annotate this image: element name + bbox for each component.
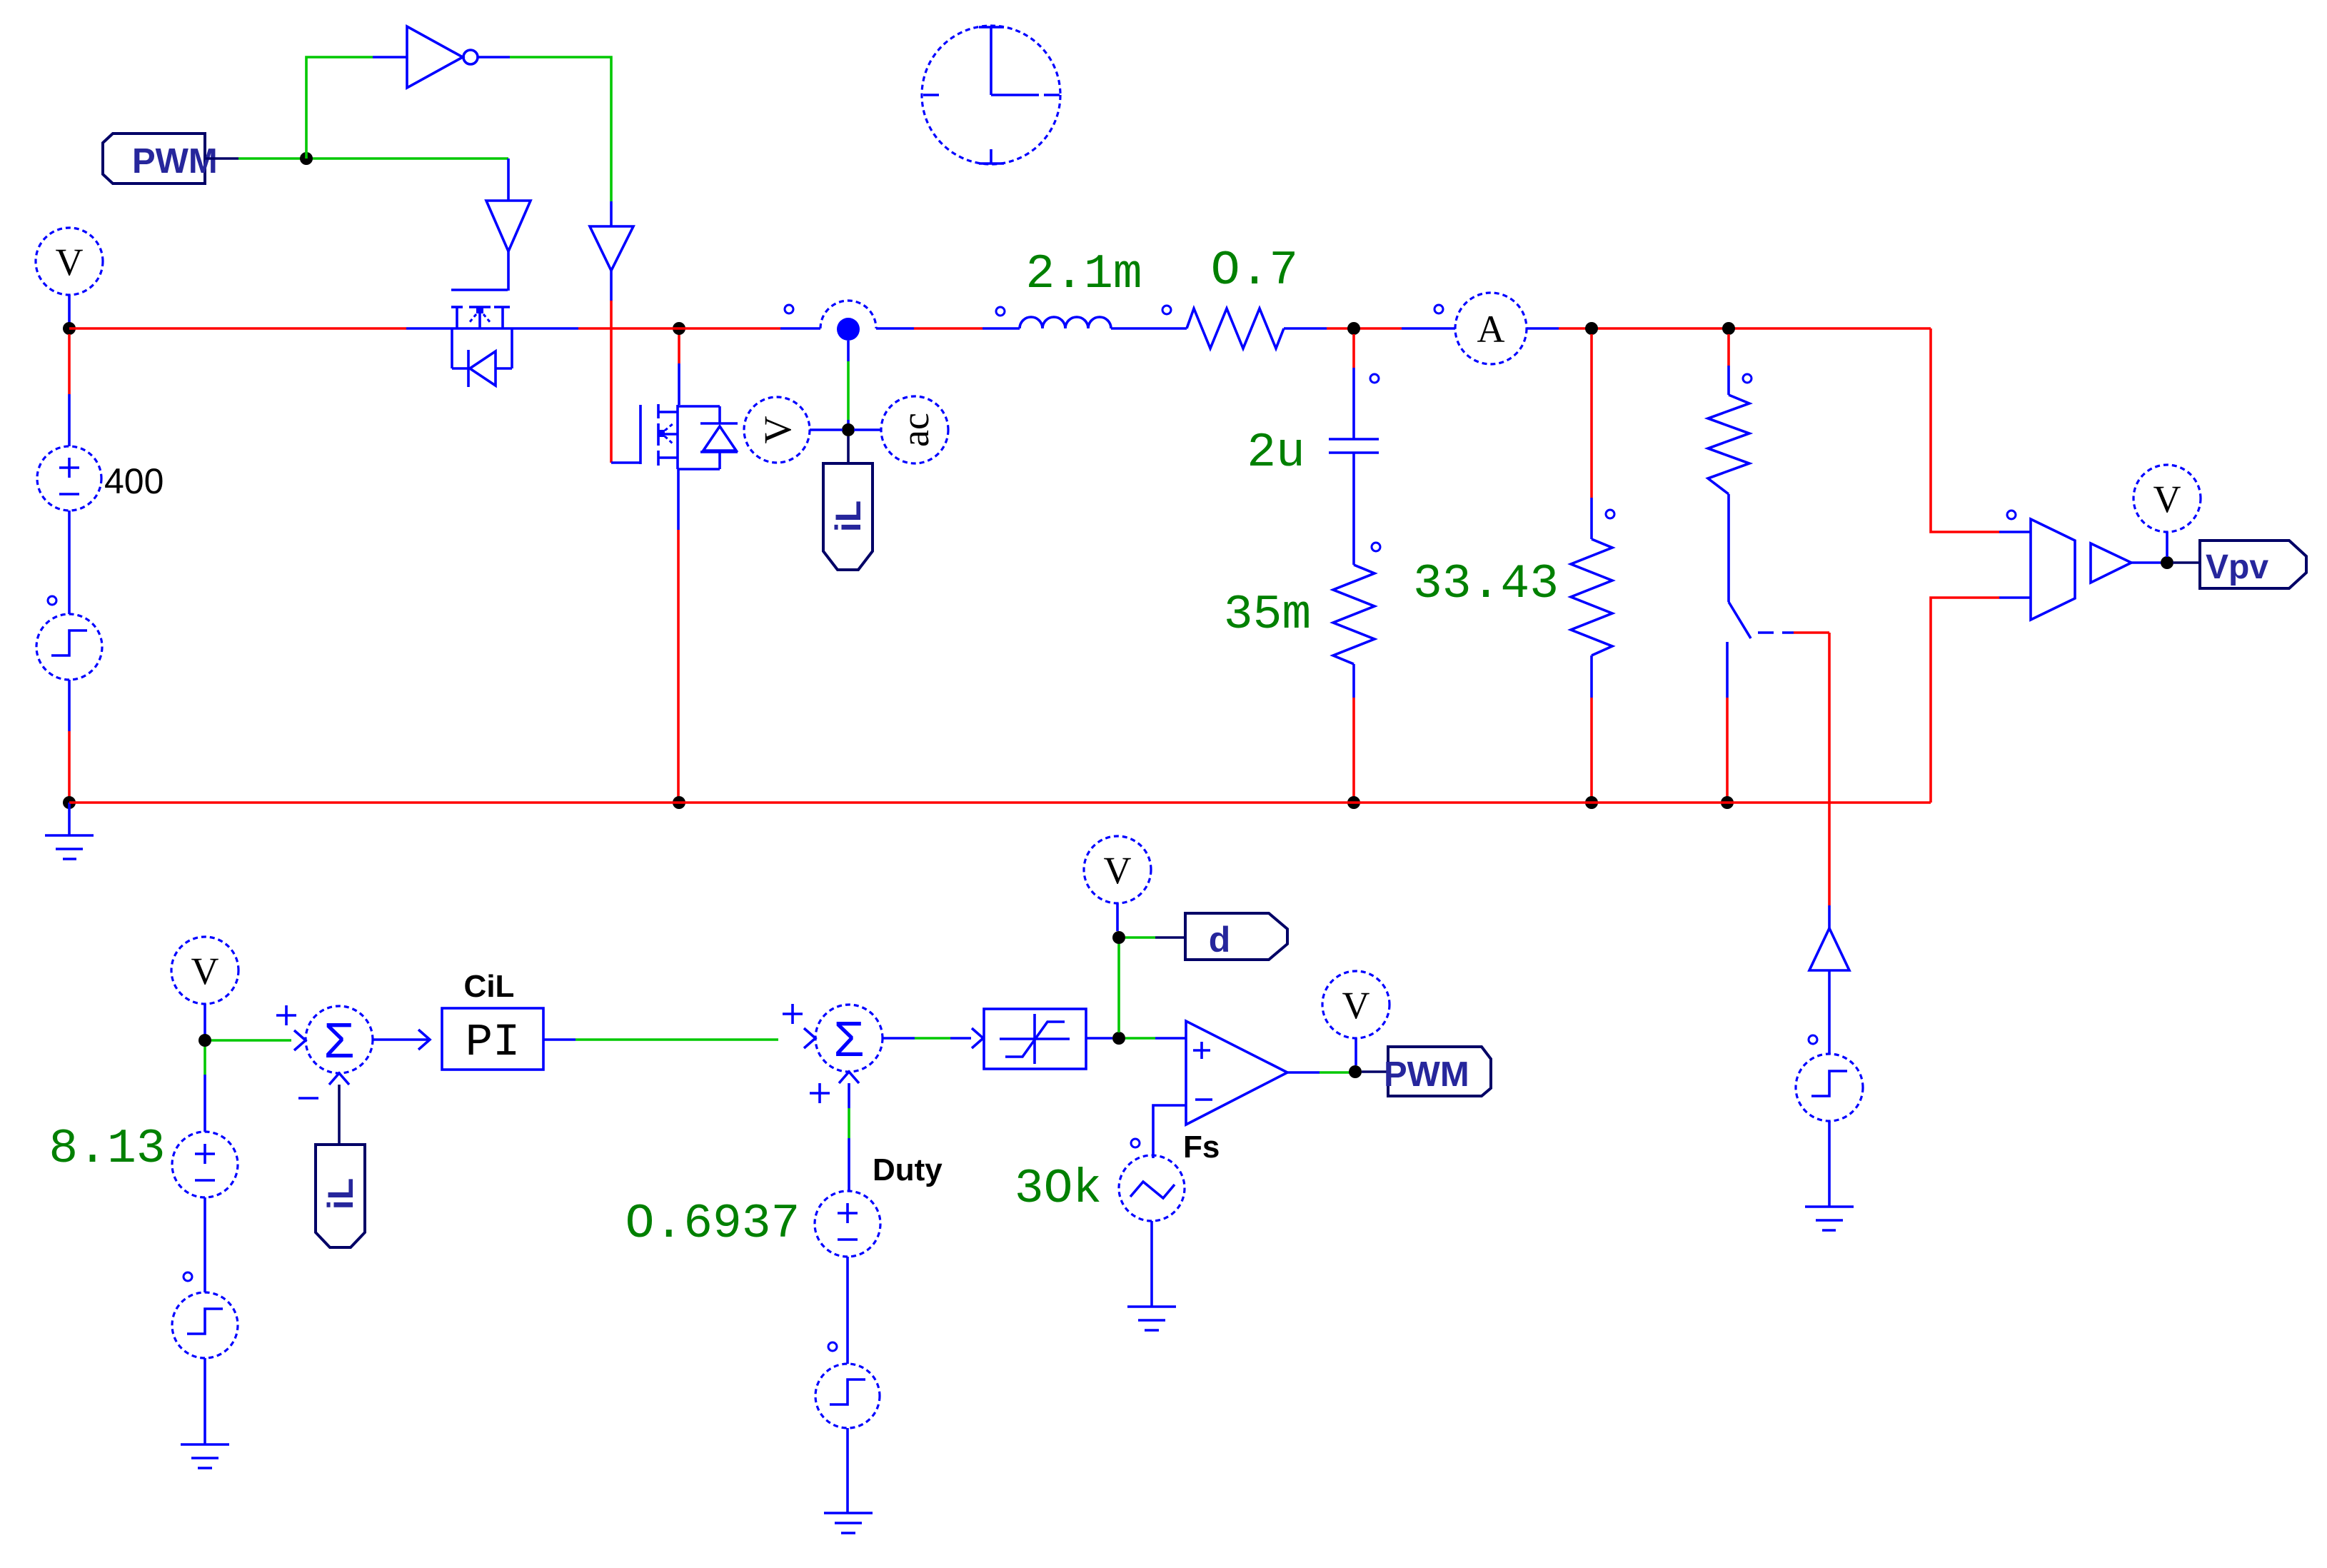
node (bus left) [63, 322, 76, 335]
step source T2 [1796, 970, 1863, 1121]
voltmeter V3 [2133, 465, 2201, 557]
wire (carrier input) [1153, 1105, 1186, 1158]
ground [45, 803, 94, 859]
inductor L1 [914, 307, 1187, 328]
wire [238, 157, 508, 160]
svg-text:PWM: PWM [132, 142, 218, 181]
step source T4 [815, 1257, 880, 1428]
mosfet Q2 (shunt switch) [640, 404, 720, 469]
svg-text:O.6937: O.6937 [625, 1197, 800, 1252]
step source T3 [172, 1197, 238, 1358]
svg-text:PI: PI [466, 1017, 521, 1069]
svg-text:2u: 2u [1247, 426, 1305, 481]
wire [846, 1428, 849, 1513]
wire (bottom bus corner up) [1931, 598, 1999, 803]
wire [1125, 1037, 1186, 1040]
svg-text:Vpv: Vpv [2206, 548, 2268, 586]
svg-text:8.13: 8.13 [49, 1122, 165, 1177]
ground [1805, 1207, 1854, 1230]
svg-text:V: V [1104, 849, 1132, 892]
pi controller CiL [373, 969, 543, 1070]
node [1347, 796, 1360, 809]
svg-text:d: d [1209, 920, 1231, 960]
wire [2131, 561, 2161, 564]
ammeter A1 [1402, 293, 1559, 364]
voltmeter V5 [1084, 836, 1151, 931]
arrow (into summer bottom) [839, 1072, 859, 1083]
signal flow triangle (switch control) [1809, 905, 1849, 970]
diode D2 (body diode of Q2) [700, 406, 738, 469]
wire [1828, 1121, 1831, 1207]
svg-text:ac: ac [894, 413, 937, 447]
label tag PWM (output) [1362, 1047, 1491, 1096]
svg-text:O.7: O.7 [1211, 243, 1298, 298]
svg-text:Fs: Fs [1183, 1130, 1220, 1165]
minus sign [298, 1097, 318, 1100]
resistor R4 (load leg) [1708, 334, 1751, 494]
node [1585, 796, 1598, 809]
plus sign [276, 1005, 296, 1025]
label tag iL (feedback) [316, 1145, 365, 1247]
label tag d [1125, 913, 1287, 960]
dc source 400 [37, 334, 164, 511]
plus sign [810, 1083, 830, 1103]
wire (right bus corner down) [1931, 328, 1999, 532]
inverter (NOT gate) [373, 26, 510, 88]
wire (Q2 source) [677, 469, 680, 798]
wire [1150, 1221, 1153, 1307]
node [1585, 322, 1598, 335]
node [1112, 931, 1125, 944]
voltmeter V6 [1322, 971, 1389, 1065]
gain block [2091, 543, 2131, 583]
voltmeter V4 [171, 937, 238, 1035]
ground [1127, 1307, 1176, 1330]
voltage sensor VSEN1 [1999, 511, 2075, 620]
wire [68, 680, 71, 798]
svg-text:PWM: PWM [1384, 1055, 1469, 1094]
svg-text:V: V [756, 416, 799, 444]
limiter [883, 1009, 1086, 1069]
label tag iL (sensor output) [823, 436, 873, 570]
step source T1 [36, 511, 102, 680]
node [842, 423, 855, 436]
svg-text:CiL: CiL [464, 969, 515, 1004]
wire [1327, 327, 1402, 330]
svg-text:iL: iL [321, 1178, 361, 1210]
wire [1117, 944, 1120, 1032]
svg-text:Σ: Σ [833, 1011, 864, 1067]
node [1347, 322, 1360, 335]
node (bottom bus left) [63, 796, 76, 809]
wire (top bus left) [69, 327, 406, 330]
wire [203, 1358, 206, 1444]
summer SUM1 [306, 1006, 373, 1073]
ground [824, 1513, 873, 1533]
wire (bus segment) [578, 327, 780, 330]
arrow (into summer bottom) [329, 1073, 349, 1085]
switch SW1 [1727, 494, 1794, 798]
resistor R2 [1333, 543, 1380, 798]
node [1349, 1065, 1362, 1078]
dc source 8.13 [172, 1047, 238, 1197]
node (Q2 drain on bus) [673, 322, 685, 335]
svg-text:35m: 35m [1224, 588, 1311, 643]
ac probe [854, 396, 948, 463]
wire [1086, 1037, 1112, 1040]
node [2161, 556, 2173, 569]
wire [211, 1030, 306, 1050]
wire [510, 57, 611, 201]
svg-text:Duty: Duty [873, 1152, 943, 1187]
svg-text:Σ: Σ [323, 1012, 354, 1068]
gate drive block (left) [486, 159, 531, 291]
svg-text:V: V [2153, 478, 2181, 521]
svg-text:V: V [56, 241, 84, 283]
plus sign [783, 1004, 803, 1024]
svg-text:400: 400 [104, 461, 164, 501]
wire (Q2 drain) [678, 334, 680, 405]
wire (gate of Q2) [611, 301, 641, 463]
clock [922, 26, 1060, 164]
svg-text:V: V [191, 950, 219, 992]
svg-text:A: A [1477, 308, 1505, 351]
label tag PWM (gate input) [103, 134, 238, 184]
resistor R3 (33.43) [1571, 334, 1614, 798]
carrier source Fs [1119, 1139, 1185, 1221]
diode D1 (body diode of Q1) [452, 328, 512, 387]
wire (switch to control, crosses bus) [1794, 633, 1829, 905]
svg-text:33.43: 33.43 [1413, 557, 1559, 612]
comparator CMP1 [1186, 1021, 1287, 1125]
voltmeter V1 [36, 228, 103, 323]
wire (comparator output) [1287, 1071, 1350, 1074]
wire [306, 57, 373, 159]
voltmeter V2 [744, 397, 843, 463]
node [300, 152, 313, 165]
dc source Duty 0.6937 [815, 1083, 880, 1257]
label tag Vpv [2173, 541, 2306, 588]
node [1112, 1032, 1125, 1045]
wire [1559, 327, 1931, 330]
svg-text:V: V [1342, 984, 1370, 1027]
svg-text:iL: iL [828, 501, 868, 532]
summer SUM2 [804, 1005, 883, 1072]
svg-text:2.1m: 2.1m [1025, 247, 1142, 302]
node [1722, 322, 1735, 335]
node (Q2 source on bottom bus) [673, 796, 685, 809]
ground [181, 1444, 229, 1468]
wire [847, 341, 850, 427]
wire [543, 1038, 778, 1041]
current sensor ISEN1 [780, 301, 914, 341]
svg-text:3Ok: 3Ok [1015, 1162, 1102, 1217]
resistor R1 [1162, 306, 1327, 348]
node [198, 1034, 211, 1047]
wire [338, 1085, 341, 1145]
gate drive block (right) [590, 201, 633, 301]
node [1721, 796, 1734, 809]
mosfet Q1 (series switch) [406, 290, 578, 328]
wire (bottom bus) [69, 801, 1931, 804]
capacitor C1 [1329, 334, 1379, 565]
